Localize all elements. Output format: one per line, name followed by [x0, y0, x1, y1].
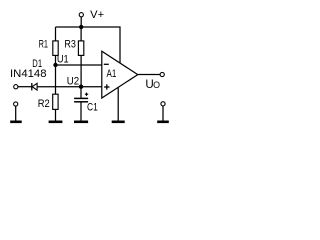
svg-text:IN4148: IN4148: [10, 68, 47, 80]
Uo label: [145, 77, 160, 91]
wire R1 to U1: [55, 55, 57, 65]
node U1: [53, 63, 57, 67]
node U2: [79, 85, 83, 89]
wire C1 to ground: [80, 102, 82, 120]
output terminal: [160, 72, 164, 76]
wire U1 down to R2 (crossover, no dot): [55, 65, 57, 94]
plus input marker: [104, 84, 109, 89]
wire right terminal to ground: [162, 106, 164, 121]
ground bar under R2: [49, 121, 63, 124]
wire output: [138, 74, 160, 76]
op-amp A1: [102, 51, 138, 98]
ground bar under op-amp: [112, 121, 125, 124]
svg-text:R2: R2: [38, 98, 50, 110]
resistor R2: [53, 94, 58, 109]
wire R3 to U2: [80, 55, 82, 86]
wire R2 to ground: [55, 109, 57, 120]
resistor R1: [53, 41, 58, 56]
wire rail to R3: [80, 27, 82, 41]
capacitor C1: [74, 98, 88, 101]
ground bar bottom-left: [10, 121, 22, 124]
ground bar bottom-right: [157, 121, 169, 124]
wire rail to R1: [55, 27, 57, 41]
svg-text:A1: A1: [107, 68, 117, 80]
ground bar under C1: [74, 121, 88, 124]
bottom-left ground terminal: [14, 102, 18, 106]
wire left terminal to ground: [15, 106, 17, 121]
wire U1 to inverting input: [56, 64, 102, 66]
bottom-right ground terminal: [161, 102, 165, 106]
svg-text:V+: V+: [90, 9, 104, 21]
wire D1 to op-amp + input: [37, 86, 102, 88]
wire op-amp V- to ground: [117, 88, 119, 121]
resistor R3: [78, 41, 83, 56]
svg-text:R3: R3: [64, 39, 76, 51]
minus input marker: [104, 63, 109, 65]
V+ terminal: [79, 13, 83, 17]
wire top rail to op-amp V+ pin: [56, 27, 121, 64]
wire input to D1: [18, 86, 32, 88]
node top junction: [79, 25, 83, 29]
svg-text:O: O: [153, 80, 160, 91]
svg-text:R1: R1: [39, 39, 48, 51]
input terminal: [14, 85, 18, 89]
diode D1: [32, 83, 37, 90]
capacitor C1 plus sign: [85, 93, 88, 96]
wire U2 to C1: [80, 87, 82, 98]
svg-text:U1: U1: [57, 53, 69, 65]
svg-text:U2: U2: [67, 76, 79, 88]
wire V+ terminal to rail: [80, 17, 82, 27]
svg-text:C1: C1: [87, 101, 98, 113]
